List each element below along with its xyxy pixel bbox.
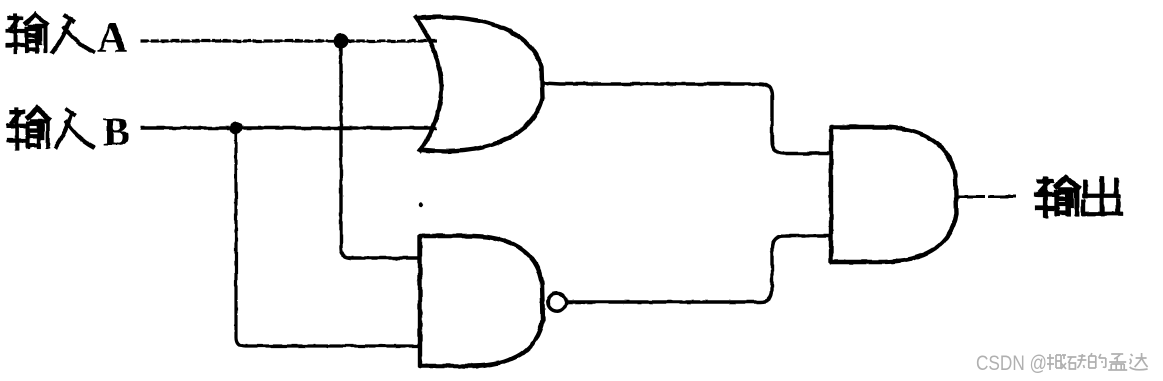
- svg-text:CSDN @: CSDN @: [976, 352, 1047, 375]
- svg-text:A: A: [97, 15, 128, 62]
- svg-text:B: B: [103, 109, 130, 154]
